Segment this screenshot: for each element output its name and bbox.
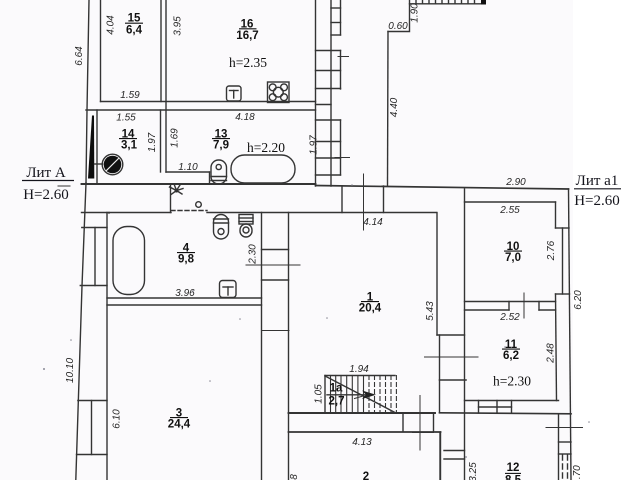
room 14 inner left wall xyxy=(96,110,98,183)
band window rungs room 12 side xyxy=(444,451,465,460)
room 11 bottom wall upper line xyxy=(465,400,559,402)
CENTRAL xyxy=(82,184,465,480)
band rung at 380 xyxy=(440,379,467,381)
svg-text:12: 12 xyxy=(507,462,520,474)
svg-text:4.18: 4.18 xyxy=(235,112,255,123)
svg-text:1.70: 1.70 xyxy=(572,465,583,480)
svg-text:Н=2.60: Н=2.60 xyxy=(23,187,69,203)
room 13 label xyxy=(212,128,230,151)
room 4 left wall / room 3 left wall xyxy=(106,213,108,480)
room 10/11 right wall inner xyxy=(556,294,557,401)
svg-text:h=2.30: h=2.30 xyxy=(493,374,531,389)
svg-text:6.64: 6.64 xyxy=(74,46,85,66)
stove connector xyxy=(95,163,103,165)
scan speckles xyxy=(43,184,590,458)
svg-text:Н=2.60: Н=2.60 xyxy=(574,193,620,209)
dim tick 357 xyxy=(425,356,479,358)
svg-text:Лит а1: Лит а1 xyxy=(576,173,619,189)
room 10 window mid line xyxy=(562,228,564,294)
svg-text:h=2.35: h=2.35 xyxy=(229,55,267,70)
outer left wall lower xyxy=(76,183,86,480)
room 3 label xyxy=(168,407,191,430)
right wall window rungs xyxy=(316,8,341,175)
svg-text:1.90: 1.90 xyxy=(410,3,421,23)
svg-text:1а: 1а xyxy=(330,383,343,395)
LIT-A1 xyxy=(440,189,572,480)
tick right wall lower xyxy=(335,157,350,159)
svg-text:6.10: 6.10 xyxy=(112,409,123,429)
wall between 10 and 11: upper line xyxy=(465,301,556,303)
svg-text:2.48: 2.48 xyxy=(546,343,557,364)
central band right line (room 1 left wall) xyxy=(288,213,290,480)
wall between room 15 and 16 (left line) xyxy=(160,0,162,102)
WALLS-UPPER xyxy=(76,0,341,480)
right wall window outer line xyxy=(340,0,342,175)
left wall band outer line lower xyxy=(439,433,441,480)
svg-text:3,1: 3,1 xyxy=(121,140,138,152)
round stove room 14 xyxy=(102,154,123,175)
RIGHT-EXTERIOR xyxy=(316,0,569,189)
wall between 10 and 11: lower line xyxy=(465,302,556,311)
upper window mid line xyxy=(94,228,96,286)
svg-text:4.04: 4.04 xyxy=(106,15,117,35)
upper window sill top xyxy=(82,227,107,229)
stair box left xyxy=(324,376,326,414)
svg-text:h=2.20: h=2.20 xyxy=(247,140,285,155)
door jambs in room 11 bottom wall xyxy=(479,401,512,414)
svg-text:3.95: 3.95 xyxy=(173,16,184,36)
bathtub room 13 xyxy=(231,155,295,183)
door opening dashes xyxy=(171,210,207,212)
dim line 2.30 horizontal xyxy=(246,264,300,266)
room 2 right wall xyxy=(440,432,442,480)
cistern toilet room 4 xyxy=(239,215,253,238)
room 1 right wall xyxy=(436,213,438,336)
sink room 16 xyxy=(227,86,242,101)
band rung 249.5 xyxy=(262,249,289,251)
tick right wall upper xyxy=(338,56,349,58)
toilet room 13 xyxy=(211,160,227,184)
svg-text:2.76: 2.76 xyxy=(546,240,557,261)
room 10 label xyxy=(504,241,522,264)
main cross wall xyxy=(316,186,569,190)
room 14 label xyxy=(119,128,138,151)
svg-text:4.14: 4.14 xyxy=(363,217,383,228)
main internal wall top of rooms 4 and 1 xyxy=(109,212,436,214)
niche right step xyxy=(209,172,211,184)
lit a1 label xyxy=(574,173,621,209)
svg-text:8,5: 8,5 xyxy=(505,474,522,480)
band rung 280 xyxy=(262,279,289,281)
right wall band: outer line xyxy=(330,0,332,186)
left wall band of lit a1: inner line xyxy=(464,202,466,480)
svg-text:1.05: 1.05 xyxy=(314,384,325,404)
tick left of cross wall xyxy=(58,185,70,187)
exterior line 4.40 xyxy=(387,32,390,187)
svg-text:2: 2 xyxy=(363,471,369,480)
room 11 bottom wall lower line xyxy=(440,413,572,414)
step from cross wall to room 10 xyxy=(465,189,556,202)
svg-text:Лит А: Лит А xyxy=(26,165,66,181)
right wall band of upper block: inner line xyxy=(315,0,317,186)
exterior step line 0.60 xyxy=(388,0,410,32)
svg-text:6,4: 6,4 xyxy=(126,25,143,37)
FIXTURES xyxy=(88,82,295,298)
black flue wedge room 14 xyxy=(88,116,94,179)
stair arrow xyxy=(327,391,376,400)
top wall of rooms 14,13 xyxy=(86,109,316,111)
bottom right wall inner line xyxy=(558,414,560,480)
lower window sill bottom xyxy=(77,454,108,456)
svg-text:1.97: 1.97 xyxy=(309,135,320,155)
svg-text:1.10: 1.10 xyxy=(178,162,198,173)
room 3 top wall xyxy=(107,304,262,306)
corridor divider below room 13 xyxy=(170,184,172,213)
bottom right window rungs xyxy=(559,442,572,454)
svg-text:1.55: 1.55 xyxy=(116,113,136,124)
svg-text:2,7: 2,7 xyxy=(329,396,345,408)
room 12 label xyxy=(505,462,522,480)
vestibule left wall xyxy=(402,413,404,432)
svg-text:20,4: 20,4 xyxy=(359,303,382,315)
bottom wall of rooms 15,16 xyxy=(101,101,316,103)
svg-text:5.43: 5.43 xyxy=(425,301,436,321)
svg-text:8: 8 xyxy=(289,474,300,480)
svg-text:2.90: 2.90 xyxy=(505,177,526,188)
lower window mid line xyxy=(91,401,93,455)
svg-text:4.13: 4.13 xyxy=(352,437,372,448)
room 15 left wall xyxy=(100,0,102,102)
room 10 window sill top xyxy=(556,227,570,229)
stair treads solid xyxy=(331,376,364,414)
svg-text:1.59: 1.59 xyxy=(120,90,140,101)
stove room 16 xyxy=(268,82,290,103)
dim line vertical 420 xyxy=(419,396,421,451)
upper window sill bottom xyxy=(80,285,107,287)
svg-text:0.60: 0.60 xyxy=(388,21,408,32)
dim tick right wall 427 xyxy=(546,427,583,429)
sink room 4 xyxy=(220,281,237,298)
svg-text:1.69: 1.69 xyxy=(170,128,181,148)
DIM-TICKS xyxy=(58,57,583,451)
lower window sill top xyxy=(78,400,107,402)
svg-text:10.10: 10.10 xyxy=(65,358,76,383)
svg-text:1.97: 1.97 xyxy=(147,132,158,152)
vent symbol corridor xyxy=(170,184,184,195)
vestibule right wall xyxy=(433,413,435,432)
room 10 window sill bottom xyxy=(556,293,570,295)
STAIRS xyxy=(325,376,396,414)
svg-text:9,8: 9,8 xyxy=(178,254,195,266)
LEFT-WINDOWS xyxy=(77,228,108,455)
room 11 label xyxy=(502,339,520,362)
room 1 right jog xyxy=(437,334,465,336)
porch strip black end cap xyxy=(481,0,486,5)
outer right wall xyxy=(569,189,572,480)
svg-text:7,0: 7,0 xyxy=(505,252,521,264)
svg-text:16,7: 16,7 xyxy=(236,30,258,42)
room 1a label xyxy=(329,383,345,408)
dim tick 432 xyxy=(413,432,434,434)
room 16 label xyxy=(236,19,258,42)
svg-text:2.30: 2.30 xyxy=(248,244,259,265)
svg-text:24,4: 24,4 xyxy=(168,419,191,431)
room 15 label xyxy=(125,13,143,37)
bathtub room 4 xyxy=(113,227,145,295)
dim tick 2.52 vertical xyxy=(523,293,525,318)
porch hatched strip top xyxy=(410,0,482,4)
svg-text:3.25: 3.25 xyxy=(468,462,479,480)
svg-text:2.52: 2.52 xyxy=(499,312,520,323)
svg-text:4.40: 4.40 xyxy=(389,97,400,117)
room 4 bottom wall xyxy=(107,297,262,299)
room 2 top wall xyxy=(289,431,441,433)
left wall band outer line upper xyxy=(439,335,441,412)
recess above room 1: right xyxy=(383,186,385,213)
wall between room 15 and 16 (right line) xyxy=(165,0,167,172)
outer left wall xyxy=(86,0,89,183)
room 13 niche bottom (1.10) xyxy=(166,171,210,173)
door hinge circle xyxy=(196,202,202,208)
recess above room 1: left xyxy=(341,186,343,213)
tick central band 330 xyxy=(262,330,289,332)
corridor top wall (bottom of rooms 14/13) xyxy=(82,183,316,185)
svg-text:1.94: 1.94 xyxy=(349,364,369,375)
svg-text:7,9: 7,9 xyxy=(213,140,229,152)
dim line 4.14 vertical xyxy=(363,174,365,230)
svg-text:3.96: 3.96 xyxy=(175,288,195,299)
svg-text:6,2: 6,2 xyxy=(503,350,519,362)
stair treads dashed xyxy=(369,376,396,414)
toilet room 4 xyxy=(214,215,229,240)
svg-text:6.20: 6.20 xyxy=(573,290,584,310)
stair box top xyxy=(325,375,395,377)
room 4 label xyxy=(177,242,195,265)
central band left line xyxy=(261,213,263,480)
bottom right dashed door lines xyxy=(563,455,568,480)
stair diagonal xyxy=(325,376,396,413)
room 1 label xyxy=(359,291,382,314)
lit A label xyxy=(22,165,74,203)
corridor left wall piece xyxy=(82,212,110,215)
room 10 right wall inner xyxy=(555,202,557,228)
svg-text:2.55: 2.55 xyxy=(499,205,520,216)
room 1 bottom wall / stairs bottom xyxy=(289,412,436,414)
wall between 13 and 14 lower part xyxy=(160,110,162,172)
